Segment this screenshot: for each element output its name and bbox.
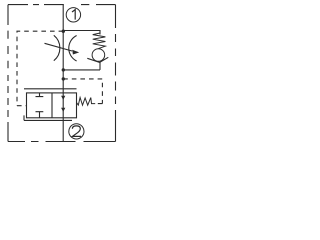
blocked port T bottom (36, 112, 44, 118)
valve body boxes (27, 93, 77, 118)
flow arrow 2 in right box (61, 108, 65, 112)
port 1 circle (66, 8, 80, 22)
branch line to check valve (63, 31, 100, 35)
valve box divider (51, 93, 53, 118)
port 2 label "2" (72, 126, 81, 136)
restrictor left arc (54, 35, 60, 60)
pilot line right (from port 2 side) (63, 79, 102, 104)
port 2 circle (69, 124, 84, 139)
adjustment arrow shaft (45, 43, 73, 51)
check valve ball (92, 49, 105, 62)
valve infinite-position line bottom (24, 115, 72, 120)
check valve lower stub (99, 62, 101, 70)
port 1 label "1" (72, 10, 75, 20)
valve spring (77, 98, 96, 106)
junction node at branch (62, 30, 65, 33)
junction node at pilot tap (62, 77, 65, 80)
enclosure border left (7, 5, 9, 142)
adjustment arrow head (72, 50, 79, 55)
valve infinite-position line top (24, 88, 77, 90)
enclosure border right (115, 5, 117, 142)
enclosure border top (8, 4, 116, 6)
flow arrow 1 in right box (61, 96, 65, 100)
check valve seat (87, 57, 108, 62)
junction node at return (62, 68, 65, 71)
main line (port 1 to port 2) (62, 5, 64, 142)
pilot line left (from port 1 side) (17, 31, 63, 106)
check valve return line (63, 69, 100, 71)
restrictor right arc (69, 36, 77, 62)
check valve spring (93, 33, 106, 49)
blocked port T top (36, 93, 44, 97)
enclosure border bottom (8, 141, 116, 143)
